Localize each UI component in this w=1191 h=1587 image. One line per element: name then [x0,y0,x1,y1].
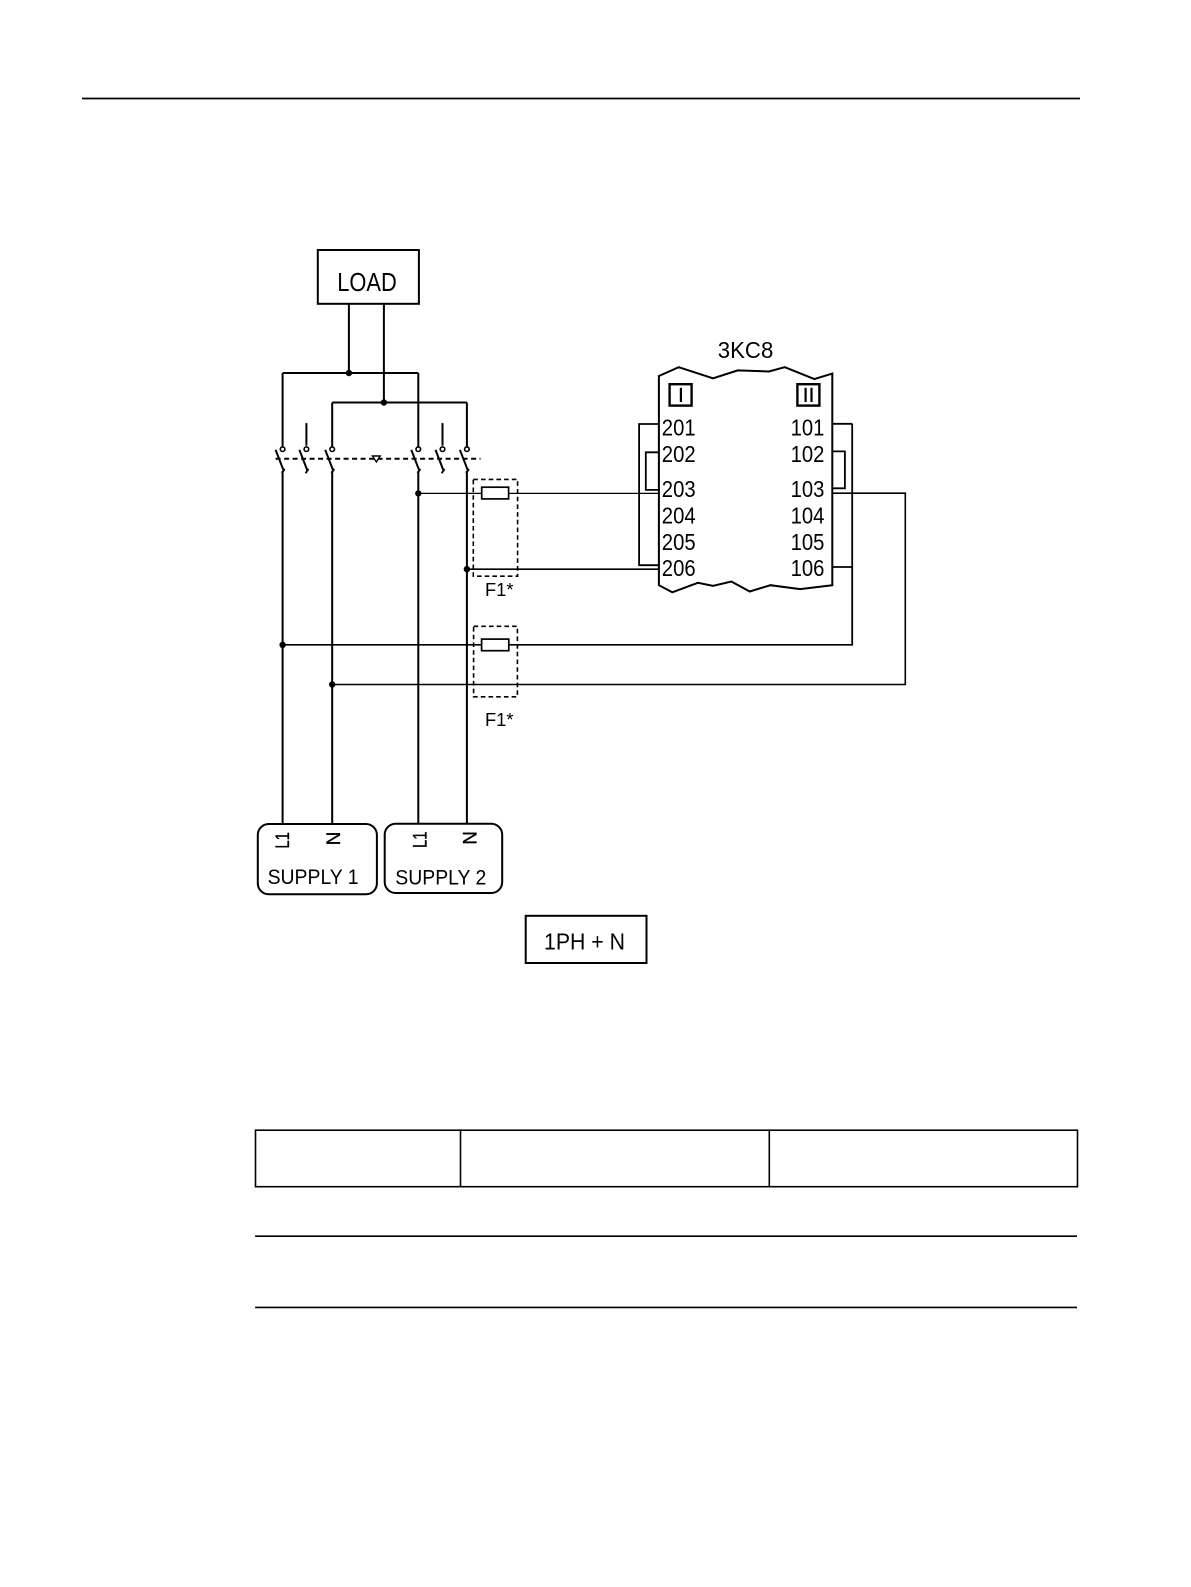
wire pole1 upper [282,373,284,447]
node supply2-L1 junction [415,490,421,496]
terminal bracket 101-106 [832,424,853,646]
wire supply1-L1 to 101/106 [283,644,853,646]
terminal bracket 201-206 [639,424,659,565]
svg-text:102: 102 [791,441,825,467]
LOAD box [318,250,419,304]
switch Q1 pole 1 contact [276,447,285,473]
wire LOAD left [348,304,350,373]
switch Q1 pole 2 contact [299,447,308,473]
wire LOAD right [383,304,385,403]
wire mechanical coupling dashed [276,458,481,460]
wire pole4 upper [417,373,419,447]
switch Q2 pole 2 contact [436,447,445,473]
svg-text:204: 204 [662,503,696,529]
node supply2-N junction [464,566,470,572]
svg-text:SUPPLY 2: SUPPLY 2 [395,866,486,889]
wire pole2 stub [305,423,307,446]
svg-text:104: 104 [791,503,825,529]
terminal bracket 102-103 [832,451,845,488]
fuse F1 body 1 [482,487,509,499]
svg-text:1PH + N: 1PH + N [544,928,625,954]
symbol II [797,384,819,405]
terminal bracket 202-203 [646,452,659,490]
svg-text:L1: L1 [411,831,432,848]
svg-text:F1*: F1* [485,579,514,600]
svg-text:101: 101 [791,415,825,441]
svg-text:103: 103 [791,476,825,502]
node LOAD-N junction [381,399,387,405]
svg-text:F1*: F1* [485,709,514,730]
supply 2 box [385,824,503,893]
coupling triangle marker [373,456,381,462]
svg-text:205: 205 [662,529,696,555]
note box 1PH+N [526,916,647,963]
switch Q2 pole 3 contact [460,447,469,473]
svg-text:201: 201 [662,415,696,441]
footnote rule 1 [255,1235,1077,1237]
node supply1-L1 junction [279,642,285,648]
svg-text:202: 202 [662,441,696,467]
svg-text:105: 105 [791,529,825,555]
svg-text:206: 206 [662,555,696,581]
wire pole3 upper [331,403,333,447]
wire pole3 lower [331,471,333,825]
svg-text:203: 203 [662,476,696,502]
wire pole6 lower [466,471,468,824]
switch Q1 pole 3 contact [325,447,334,473]
wire bus L1 [283,372,419,374]
svg-text:LOAD: LOAD [337,269,397,297]
switch Q2 pole 1 contact [411,447,420,473]
table frame [256,1130,1078,1187]
fuse F1 body 2 [482,639,509,651]
wire pole4 lower [417,471,419,824]
svg-text:SUPPLY 1: SUPPLY 1 [268,866,359,889]
header rule [82,98,1080,100]
node supply1-N junction [329,681,335,687]
node LOAD-L1 junction [346,370,352,376]
fuse F1 option box 2 [474,626,518,697]
svg-text:N: N [323,832,345,846]
device U1 3KC8 outline [659,367,832,592]
symbol I [670,384,692,405]
svg-text:N: N [460,831,482,845]
wire bus N [332,402,467,404]
svg-text:3KC8: 3KC8 [718,337,774,363]
fuse F1 option box 1 [473,479,517,576]
wire pole1 lower [282,471,284,825]
wire supply2-L1 to 203 [418,492,659,494]
svg-text:106: 106 [791,555,825,581]
wire pole5 stub [442,423,444,446]
svg-text:L1: L1 [273,832,294,849]
wire supply2-N to 206 [467,568,659,570]
supply 1 box [258,824,377,894]
wire supply1-N to 103 [332,493,905,684]
footnote rule 2 [255,1306,1077,1308]
wire pole6 upper [466,403,468,447]
